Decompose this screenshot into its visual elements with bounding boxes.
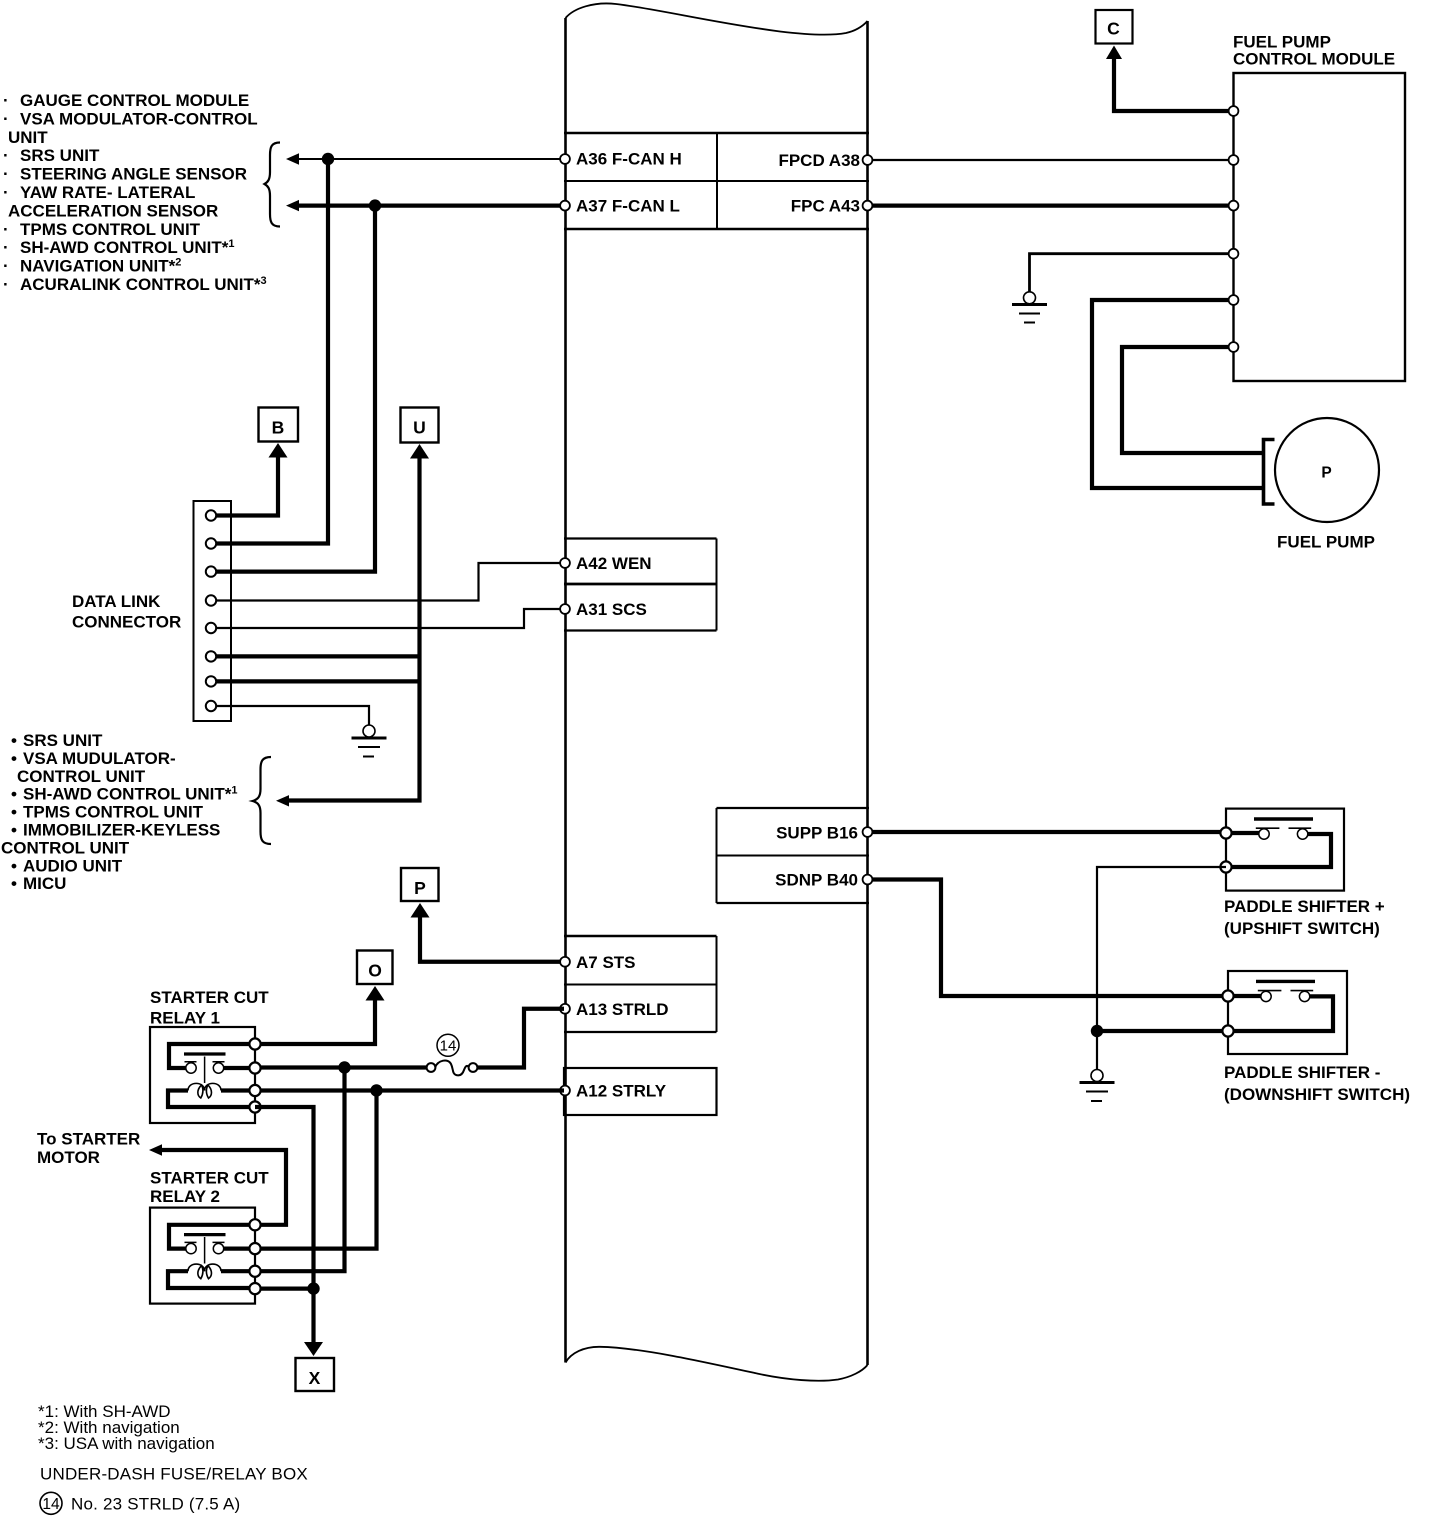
relay 2 box [150, 1208, 255, 1304]
svg-text:A7 STS: A7 STS [576, 953, 636, 972]
upshift switch contact circles [1259, 829, 1269, 839]
svg-text:·YAW RATE- LATERAL: ·YAW RATE- LATERAL [3, 183, 195, 202]
wire relay1 pin4 down to X [255, 1107, 314, 1345]
svg-text:•IMMOBILIZER-KEYLESS: •IMMOBILIZER-KEYLESS [11, 821, 220, 840]
svg-text:UNIT: UNIT [8, 128, 48, 147]
wire upshift T2 to ground [1097, 867, 1226, 1069]
DLC pin4 wire to A42 WEN [211, 563, 564, 601]
svg-text:CONNECTOR: CONNECTOR [72, 613, 181, 632]
fuse legend circled 14 [40, 1492, 62, 1514]
svg-text:•AUDIO UNIT: •AUDIO UNIT [11, 856, 123, 875]
relay 1 internal contact feed [169, 1044, 255, 1068]
wire FPCD A38 to module [870, 159, 1230, 161]
wire SDNP B40 to downshift switch [870, 880, 1224, 997]
band edge circles A36/A37 FPCD/FPC [560, 154, 872, 210]
brace 2 [253, 757, 272, 844]
wire A12 STRLY to relay1 pin3 [258, 1088, 564, 1092]
downshift switch top bar [1256, 980, 1315, 983]
svg-text:A36 F-CAN H: A36 F-CAN H [576, 150, 682, 169]
terminal table A42 WEN / A31 SCS [564, 539, 717, 631]
arrow into P [411, 903, 430, 918]
relay 1 armature link [204, 1057, 206, 1084]
ECM/PCM torn band right edge [866, 21, 869, 1365]
relay 1 coil [188, 1083, 221, 1098]
fuel pump motor circle [1275, 418, 1379, 522]
svg-text:No. 23 STRLD (7.5 A): No. 23 STRLD (7.5 A) [71, 1495, 240, 1514]
brace 1 [265, 143, 281, 227]
wire F-CAN H [297, 158, 564, 160]
wire SUPP B16 to upshift switch [870, 830, 1222, 834]
fuel pump control module box [1234, 73, 1406, 381]
junction node fuse to relay2 pin3 [338, 1061, 350, 1073]
svg-text:A37 F-CAN L: A37 F-CAN L [576, 197, 680, 216]
junction node ground to downshift [1091, 1025, 1103, 1037]
relay 1 contact bar [184, 1052, 226, 1055]
relay 2 pin circles [249, 1219, 260, 1294]
connector C box [1096, 10, 1133, 44]
svg-text:14: 14 [42, 1496, 60, 1513]
arrow into B [269, 443, 288, 458]
upshift switch loop contact to T2 [1226, 834, 1331, 867]
svg-text:STARTER CUT: STARTER CUT [150, 1169, 269, 1188]
svg-text:RELAY 1: RELAY 1 [150, 1009, 220, 1028]
downshift switch contact circles [1261, 991, 1271, 1001]
connector O box [357, 951, 393, 985]
relay 2 internal contact feed [169, 1225, 255, 1249]
svg-text:RELAY 2: RELAY 2 [150, 1187, 220, 1206]
downshift switch box [1228, 971, 1347, 1054]
left device list 2 [1, 731, 238, 893]
terminal table A36/A37 + FPCD/FPC [564, 133, 869, 229]
wire relay2 pin1 to starter motor [160, 1150, 286, 1225]
svg-text:·NAVIGATION UNIT*2: ·NAVIGATION UNIT*2 [3, 257, 181, 276]
connector B box [259, 408, 299, 442]
wire F-CAN L branch to DLC pin3 [214, 206, 375, 572]
svg-text:•SRS UNIT: •SRS UNIT [11, 731, 103, 750]
downshift switch loop contact to T2 [1228, 996, 1333, 1031]
svg-text:•VSA MUDULATOR-: •VSA MUDULATOR- [11, 749, 176, 768]
svg-text:*3: USA with navigation: *3: USA with navigation [38, 1434, 215, 1453]
svg-text:14: 14 [440, 1038, 457, 1055]
wire F-CAN H arrow [286, 153, 299, 164]
DLC pin5 wire to A31 SCS [211, 609, 564, 628]
relay 1 contact circles [186, 1063, 196, 1073]
connector P box [401, 868, 439, 901]
connector U box [401, 408, 439, 443]
DLC pin1 wire to B [211, 455, 278, 516]
relay 2 contact circles [186, 1243, 196, 1253]
upshift switch wire T1 to contact [1226, 831, 1261, 835]
relay 1 box [150, 1027, 255, 1123]
DLC pin circles [206, 510, 216, 711]
junction node relay2 pin4 [307, 1282, 319, 1294]
wire F-CAN L arrow [286, 200, 299, 211]
svg-text:•TPMS CONTROL UNIT: •TPMS CONTROL UNIT [11, 803, 204, 822]
fuse 14 wire left to relay1 pin2 [258, 1065, 427, 1069]
wire FPCD to C [1114, 57, 1230, 111]
arrow into X [304, 1342, 323, 1356]
svg-text:A13 STRLD: A13 STRLD [576, 1000, 669, 1019]
svg-text:A42 WEN: A42 WEN [576, 554, 652, 573]
downshift switch terminal circles [1222, 990, 1233, 1001]
svg-text:FPCD A38: FPCD A38 [778, 151, 860, 170]
relay 2 contact ticks [185, 1241, 225, 1243]
band edge circles A7/A13/A12 [560, 957, 570, 967]
band edge circles SUPP/SDNP [863, 827, 873, 837]
connector X box [296, 1358, 335, 1391]
wire F-CAN H branch to DLC pin2 [214, 159, 328, 544]
junction node A12 to relay2 pin2 [370, 1084, 382, 1096]
svg-text:DATA LINK: DATA LINK [72, 592, 161, 611]
wire relay2 pin4 [258, 1286, 314, 1290]
svg-text:A12 STRLY: A12 STRLY [576, 1082, 667, 1101]
arrow into C [1106, 46, 1122, 60]
relay 2 armature link [204, 1237, 206, 1264]
DLC pin6/pin7 wires to U and list arrow [289, 456, 420, 801]
upshift switch contact ticks [1256, 827, 1311, 829]
svg-text:X: X [309, 1368, 321, 1388]
svg-text:UNDER-DASH FUSE/RELAY BOX: UNDER-DASH FUSE/RELAY BOX [40, 1465, 308, 1484]
svg-text:PADDLE SHIFTER -: PADDLE SHIFTER - [1224, 1063, 1380, 1082]
relay 1 pin circles [249, 1038, 260, 1112]
band edge circles A42/A31 [560, 558, 570, 568]
wire relay1 pin1 to O [258, 998, 375, 1044]
relay 2 contact bar [184, 1233, 226, 1236]
svg-text:FUEL PUMP: FUEL PUMP [1277, 533, 1375, 552]
svg-text:SUPP B16: SUPP B16 [776, 824, 858, 843]
svg-text:·SH-AWD CONTROL UNIT*1: ·SH-AWD CONTROL UNIT*1 [3, 238, 235, 257]
left device list 1 [3, 91, 267, 294]
svg-text:U: U [413, 417, 426, 437]
fuel pump bracket [1264, 440, 1275, 505]
svg-text:·STEERING ANGLE SENSOR: ·STEERING ANGLE SENSOR [3, 165, 247, 184]
ECM/PCM torn band left edge [564, 18, 567, 1363]
relay 2 coil [188, 1264, 221, 1279]
svg-text:FPC A43: FPC A43 [791, 197, 860, 216]
svg-text:A31 SCS: A31 SCS [576, 600, 647, 619]
module pin circles [1229, 106, 1239, 352]
relay 1 coil wire [168, 1091, 255, 1108]
svg-text:SDNP B40: SDNP B40 [775, 871, 858, 890]
svg-text:O: O [368, 960, 382, 980]
ground G2 [352, 725, 387, 757]
svg-text:·VSA MODULATOR-CONTROL: ·VSA MODULATOR-CONTROL [3, 109, 258, 128]
arrow into U [410, 444, 429, 459]
svg-text:PADDLE SHIFTER +: PADDLE SHIFTER + [1224, 897, 1385, 916]
svg-text:(UPSHIFT SWITCH): (UPSHIFT SWITCH) [1224, 919, 1380, 938]
svg-text:STARTER CUT: STARTER CUT [150, 988, 269, 1007]
wire module to fuel pump upper [1122, 347, 1262, 453]
wire downshift T2 to junction [1097, 1029, 1224, 1033]
wire A13 STRLD to fuse [478, 1009, 564, 1068]
terminal table SUPP B16 / SDNP B40 [717, 808, 870, 903]
ground G3 [1080, 1070, 1115, 1102]
svg-text:•SH-AWD CONTROL UNIT*1: •SH-AWD CONTROL UNIT*1 [11, 785, 238, 804]
svg-text:CONTROL MODULE: CONTROL MODULE [1233, 50, 1395, 69]
ground G1 [1012, 292, 1047, 323]
svg-text:P: P [414, 878, 426, 898]
data link connector box [194, 501, 232, 721]
ECM/PCM torn band top wave [566, 3, 868, 34]
relay 1 contact ticks [185, 1061, 225, 1063]
svg-text:·TPMS CONTROL UNIT: ·TPMS CONTROL UNIT [3, 220, 201, 239]
downshift switch contact ticks [1258, 990, 1313, 992]
DLC pin8 wire to ground G2 [211, 706, 369, 725]
terminal box A12 STRLY [564, 1068, 717, 1115]
terminal table A7 STS / A13 STRLD [564, 936, 717, 1032]
svg-text:CONTROL UNIT: CONTROL UNIT [1, 838, 130, 857]
upshift switch top bar [1254, 817, 1313, 820]
wire F-CAN L [297, 204, 564, 208]
upshift switch box [1226, 809, 1344, 891]
junction node F-CAN L [369, 199, 381, 211]
wire A7 STS to P [420, 915, 564, 962]
downshift switch wire T1 to contact [1228, 994, 1263, 998]
svg-text:·ACURALINK CONTROL UNIT*3: ·ACURALINK CONTROL UNIT*3 [3, 275, 267, 294]
fuse number 14 circled [437, 1034, 459, 1056]
fuse F14 symbol [427, 1060, 478, 1075]
upshift switch terminal circles [1220, 827, 1231, 838]
junction node F-CAN H [322, 153, 334, 165]
wire FPC A43 to module [870, 204, 1230, 208]
wire module to fuel pump lower [1092, 300, 1262, 488]
svg-text:P: P [1321, 464, 1331, 481]
svg-text:C: C [1107, 18, 1120, 38]
relay 2 coil wire [168, 1271, 255, 1288]
arrow into O [366, 986, 385, 1001]
svg-text:·GAUGE CONTROL MODULE: ·GAUGE CONTROL MODULE [3, 91, 249, 110]
svg-text:ACCELERATION SENSOR: ACCELERATION SENSOR [8, 201, 218, 220]
arrow to starter motor [149, 1144, 162, 1155]
arrow into list 2 [276, 795, 289, 806]
svg-text:(DOWNSHIFT SWITCH): (DOWNSHIFT SWITCH) [1224, 1085, 1410, 1104]
svg-text:CONTROL UNIT: CONTROL UNIT [17, 767, 146, 786]
svg-text:MOTOR: MOTOR [37, 1148, 100, 1167]
svg-text:To STARTER: To STARTER [37, 1130, 140, 1149]
svg-text:B: B [272, 417, 285, 437]
wire module to ground G1 [1030, 254, 1231, 292]
ECM/PCM torn band bottom wave [566, 1347, 868, 1381]
